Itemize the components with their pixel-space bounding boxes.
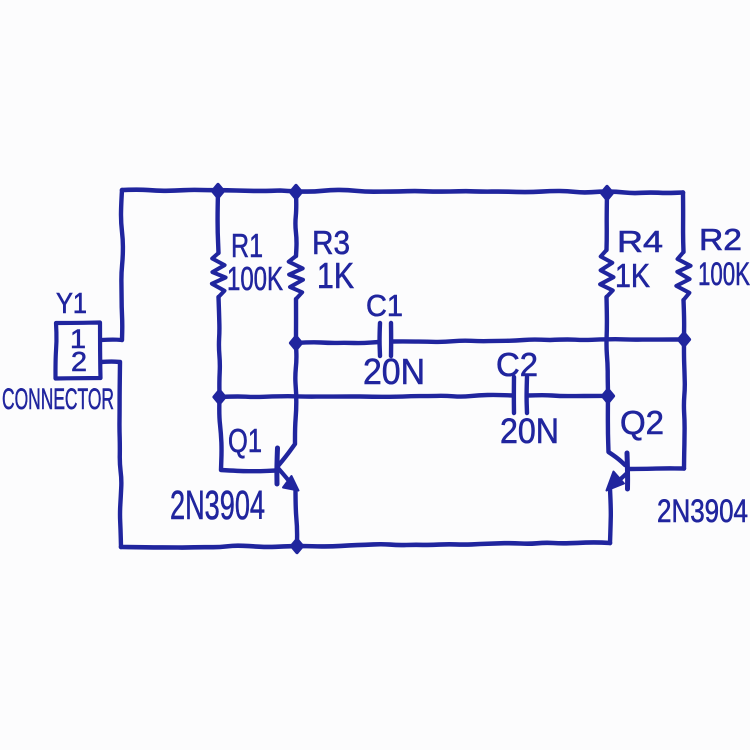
resistor R3 [295,192,296,256]
transistor Q1 [219,397,276,471]
wire C2 row left segment [220,395,514,397]
svg-text:2N3904: 2N3904 [657,493,748,529]
wire C1 row left segment [296,342,379,343]
wire Y1 pin 1 stub [101,338,122,343]
resistor R2 [681,193,686,253]
svg-text:2: 2 [71,346,87,377]
wire C1 row right segment [392,339,684,342]
svg-text:C2: C2 [496,346,538,383]
svg-text:2N3904: 2N3904 [170,482,265,528]
wire C2 row right segment [528,393,608,398]
node top of R4 [602,187,613,200]
transistor Q2 [608,396,625,465]
connector Y1 box [55,323,100,379]
wire left column upper (top rail to Y1 pin 1) [121,190,123,340]
svg-text:CONNECTOR: CONNECTOR [2,383,114,416]
node Q1-emitter/ground rail [292,540,303,553]
capacitor C2 [512,377,517,413]
svg-text:R4: R4 [617,224,663,259]
svg-text:R2: R2 [699,222,742,257]
svg-text:Q1: Q1 [228,422,262,459]
svg-text:C1: C1 [366,288,403,323]
node top of R1 [213,185,224,198]
wire bottom ground rail [121,542,610,547]
svg-text:20N: 20N [500,412,559,451]
resistor R4 [604,193,609,250]
node R2/C1 [679,333,690,346]
svg-text:R1: R1 [231,227,263,264]
node top of R3 [291,186,302,199]
node R1/C2/Q1-base [214,391,225,404]
svg-text:1K: 1K [317,255,354,296]
wire Y1 pin 2 stub + left column lower [101,362,121,547]
resistor R1 [215,192,220,253]
svg-text:100K: 100K [698,256,750,292]
node R4/C2/Q2-collector [603,390,614,403]
svg-text:Q2: Q2 [620,404,664,441]
capacitor C1 [377,323,382,356]
svg-text:20N: 20N [363,351,425,392]
svg-text:Y1: Y1 [56,288,87,320]
wire top power rail [122,190,683,193]
svg-text:100K: 100K [227,260,283,297]
node R3/C1/Q1-collector [291,337,302,350]
svg-text:1K: 1K [615,257,650,294]
